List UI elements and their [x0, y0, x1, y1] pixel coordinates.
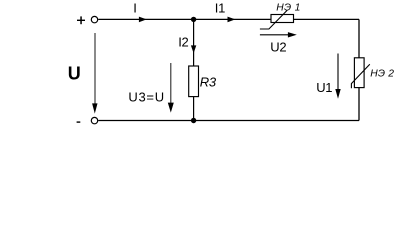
voltage arrow U2	[260, 34, 289, 36]
current arrow I1	[228, 17, 236, 23]
nonlinear element NE1 body	[271, 15, 294, 23]
nonlinear element NE2 body	[354, 58, 364, 88]
wire bottom (back to - terminal)	[98, 120, 359, 122]
svg-text:U3=U: U3=U	[128, 89, 164, 104]
current arrow I2	[191, 45, 196, 53]
svg-text:U1: U1	[316, 80, 332, 95]
wire right (down to bottom corner)	[358, 19, 360, 120]
svg-text:I: I	[133, 1, 137, 16]
wire middle branch (through R3)	[193, 19, 195, 120]
terminal - circle	[91, 117, 97, 123]
voltage arrow U (source)	[94, 33, 96, 105]
svg-text:R3: R3	[200, 75, 217, 90]
nonlinear element NE2 diagonal stroke	[351, 64, 369, 88]
svg-text:U: U	[68, 63, 81, 83]
svg-text:I1: I1	[215, 1, 225, 16]
wire top (from + terminal to right corner)	[98, 18, 359, 20]
node junction bottom	[191, 118, 196, 123]
terminal + circle	[91, 16, 97, 22]
resistor R3	[189, 66, 199, 97]
svg-text:U2: U2	[270, 40, 286, 55]
svg-text:НЭ 2: НЭ 2	[370, 69, 394, 80]
voltage arrow U3	[170, 63, 172, 104]
nonlinear element NE1 diagonal stroke	[260, 10, 287, 29]
node junction top (I2 branch)	[191, 17, 196, 22]
label - sign	[77, 121, 81, 122]
voltage arrow U1	[337, 54, 339, 91]
svg-text:НЭ 1: НЭ 1	[276, 2, 301, 13]
current arrow I	[139, 17, 147, 23]
svg-text:I2: I2	[178, 34, 188, 49]
label + sign	[77, 20, 85, 21]
